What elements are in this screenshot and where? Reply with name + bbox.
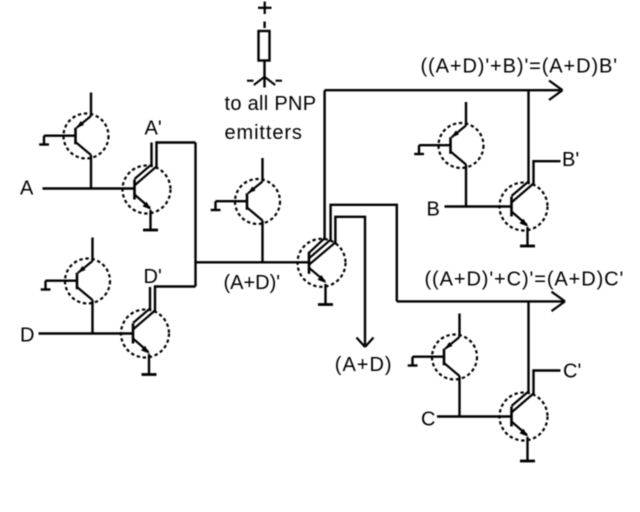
wire Q6 emitter to ground bbox=[324, 284, 326, 305]
wire Q6 collector 1 up to B output row bbox=[323, 90, 325, 239]
transistor Q6 NPN triple collector ((A+D) inverter) bbox=[298, 238, 346, 287]
transistor Q4 NPN (D' gate) bbox=[121, 309, 169, 358]
wire Q2 collector 2 to trunk bbox=[157, 143, 196, 168]
power supply + terminal bbox=[258, 2, 272, 15]
svg-text:emitters: emitters bbox=[225, 122, 303, 144]
arrowhead (A+D) output bbox=[357, 338, 374, 348]
ground of Q8 emitter bbox=[520, 245, 535, 247]
wire node C bbox=[437, 415, 512, 417]
svg-text:C': C' bbox=[563, 361, 581, 383]
svg-text:B': B' bbox=[562, 149, 579, 171]
transistor Q8 NPN (B' gate) bbox=[500, 182, 548, 231]
wire C row output to Q10 collector bbox=[527, 301, 529, 394]
wire Q3 collector to node D bbox=[91, 300, 93, 334]
wire Q4 emitter to ground bbox=[148, 354, 150, 375]
wire Q6 collector 2 to C output row bbox=[331, 205, 397, 302]
arrowhead output ((A+D)'+C)' bbox=[552, 292, 566, 311]
wire node D bbox=[39, 332, 134, 334]
wire from + to resistor R1 bbox=[263, 22, 265, 29]
wire Q2 emitter to ground bbox=[149, 210, 151, 230]
wire Q10 collector 2 stub to C' bbox=[534, 371, 561, 396]
svg-text:D: D bbox=[20, 325, 34, 347]
svg-text:(A+D): (A+D) bbox=[335, 354, 393, 376]
wire node B bbox=[445, 205, 512, 207]
svg-text:D': D' bbox=[144, 266, 162, 288]
svg-text:C: C bbox=[421, 409, 435, 431]
resistor R1 bbox=[259, 31, 270, 61]
svg-text:to all PNP: to all PNP bbox=[225, 93, 317, 115]
svg-text:A: A bbox=[20, 178, 34, 200]
wire from resistor R1 down bbox=[263, 61, 265, 88]
transistor Q1 PNP injector (A stage) bbox=[64, 93, 109, 159]
wire Q8 emitter to ground bbox=[526, 227, 528, 246]
wire Q7 collector to node B bbox=[465, 165, 467, 207]
wire Q5 collector to node (A+D)' bbox=[261, 221, 263, 263]
wire output row ((A+D)'+B)' bbox=[325, 89, 560, 91]
wire trunk vertical (A'/D' collectors join) bbox=[194, 143, 196, 287]
ground of Q2 emitter bbox=[143, 229, 158, 231]
wire output row ((A+D)'+C)' bbox=[397, 300, 563, 302]
wire Q8 collector 2 stub to B' bbox=[534, 161, 561, 185]
wire Q9 collector to node C bbox=[458, 376, 460, 417]
transistor Q9 PNP injector (C stage) bbox=[432, 314, 477, 380]
wire B row output to Q8 collector bbox=[527, 90, 529, 184]
transistor Q10 NPN (C' gate) bbox=[500, 392, 548, 441]
ground return of Q5 base bbox=[211, 201, 247, 210]
ground return of Q9 base bbox=[408, 357, 444, 366]
wire Q1 collector to node A bbox=[90, 155, 92, 189]
wire Q10 emitter to ground bbox=[526, 437, 528, 461]
svg-text:((A+D)'+B)'=(A+D)B': ((A+D)'+B)'=(A+D)B' bbox=[421, 56, 618, 78]
ground return of Q7 base bbox=[414, 145, 450, 154]
fanout symbol to all PNP emitters bbox=[247, 77, 282, 85]
wire Q4 collector 2 to trunk bbox=[155, 287, 196, 312]
svg-text:A': A' bbox=[145, 118, 162, 140]
ground of Q10 emitter bbox=[520, 460, 535, 462]
ground return of Q3 base bbox=[41, 281, 77, 290]
transistor Q5 PNP injector ((A+D)' node) bbox=[235, 158, 280, 224]
ground of Q6 emitter bbox=[318, 304, 333, 306]
transistor Q3 PNP injector (D stage) bbox=[65, 238, 110, 304]
arrowhead output ((A+D)'+B)' bbox=[549, 81, 563, 101]
wire Q4 collector 1 stub to D' bbox=[149, 287, 151, 310]
wire node (A+D)' bbox=[196, 261, 310, 263]
ground of Q4 emitter bbox=[142, 374, 157, 376]
transistor Q2 NPN (A' gate) bbox=[123, 165, 171, 214]
wire Q6 collector 3 to (A+D) output bbox=[335, 217, 365, 345]
svg-text:(A+D)': (A+D)' bbox=[224, 272, 281, 294]
transistor Q7 PNP injector (B stage) bbox=[439, 102, 484, 168]
svg-text:((A+D)'+C)'=(A+D)C': ((A+D)'+C)'=(A+D)C' bbox=[425, 269, 625, 291]
wire node A bbox=[43, 187, 135, 189]
svg-text:B: B bbox=[427, 199, 440, 221]
ground return of Q1 base bbox=[39, 136, 75, 145]
wire Q2 collector 1 stub to A' bbox=[150, 143, 152, 167]
